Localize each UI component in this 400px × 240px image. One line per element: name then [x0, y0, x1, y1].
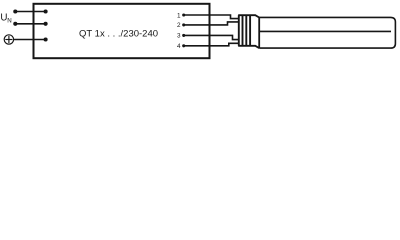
wire lamp pin 3 — [184, 35, 240, 39]
lamp base cap outline — [238, 15, 259, 48]
junction dot right PE (ballast terminal) — [44, 37, 48, 41]
wire lamp pin 1 — [184, 15, 240, 19]
wire lamp pin 4 — [184, 43, 240, 46]
terminal dot 3 — [182, 34, 185, 37]
svg-text:4: 4 — [177, 43, 181, 50]
node U_N label — [0, 12, 11, 24]
lamp socket hatched block — [239, 15, 250, 46]
junction dot left N — [13, 22, 17, 26]
wire PE — [14, 39, 46, 41]
lamp tube outline — [259, 17, 395, 48]
svg-text:N: N — [7, 17, 11, 24]
svg-text:QT 1x . . ./230-240: QT 1x . . ./230-240 — [79, 29, 158, 40]
svg-text:2: 2 — [177, 22, 181, 29]
junction dot left L — [13, 9, 17, 13]
terminal dot 2 — [182, 23, 185, 26]
svg-text:3: 3 — [177, 33, 181, 40]
terminal dot 4 — [182, 44, 185, 47]
svg-text:1: 1 — [177, 12, 181, 19]
wire lamp pin 2 — [184, 22, 240, 25]
wire L (mains input top) — [15, 11, 46, 13]
ballast box QT 1x.../230-240 — [34, 4, 210, 58]
junction dot right L (ballast terminal) — [44, 9, 48, 13]
wire N (mains input second) — [15, 23, 46, 25]
junction dot right N (ballast terminal) — [44, 22, 48, 26]
earth symbol (circled plus, PE) — [4, 35, 13, 44]
terminal dot 1 — [182, 13, 185, 16]
lamp tube middle line — [259, 30, 391, 32]
